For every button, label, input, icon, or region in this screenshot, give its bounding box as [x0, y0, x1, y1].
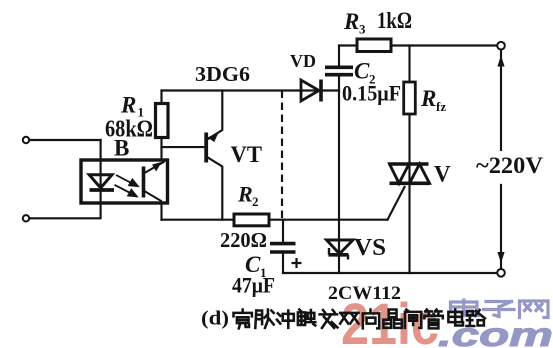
svg-text:2: 2 [252, 194, 259, 209]
svg-text:1kΩ: 1kΩ [377, 8, 412, 33]
svg-text:B: B [114, 136, 129, 161]
svg-text:R: R [120, 93, 136, 118]
svg-text:R: R [237, 182, 253, 207]
svg-text:R: R [343, 9, 359, 34]
svg-text:0.15μF: 0.15μF [342, 81, 401, 106]
svg-text:~220V: ~220V [476, 153, 543, 178]
svg-text:VD: VD [290, 51, 316, 71]
svg-text:VS: VS [354, 235, 386, 261]
svg-text:R: R [420, 86, 436, 111]
svg-text:3DG6: 3DG6 [195, 62, 250, 86]
svg-text:VT: VT [231, 142, 263, 167]
svg-text:3: 3 [359, 22, 366, 37]
svg-text:(d): (d) [201, 308, 229, 330]
svg-text:fz: fz [436, 99, 446, 114]
svg-text:47μF: 47μF [232, 273, 275, 298]
svg-text:220Ω: 220Ω [220, 228, 267, 252]
svg-text:V: V [434, 162, 451, 187]
svg-text:2CW112: 2CW112 [328, 283, 401, 304]
